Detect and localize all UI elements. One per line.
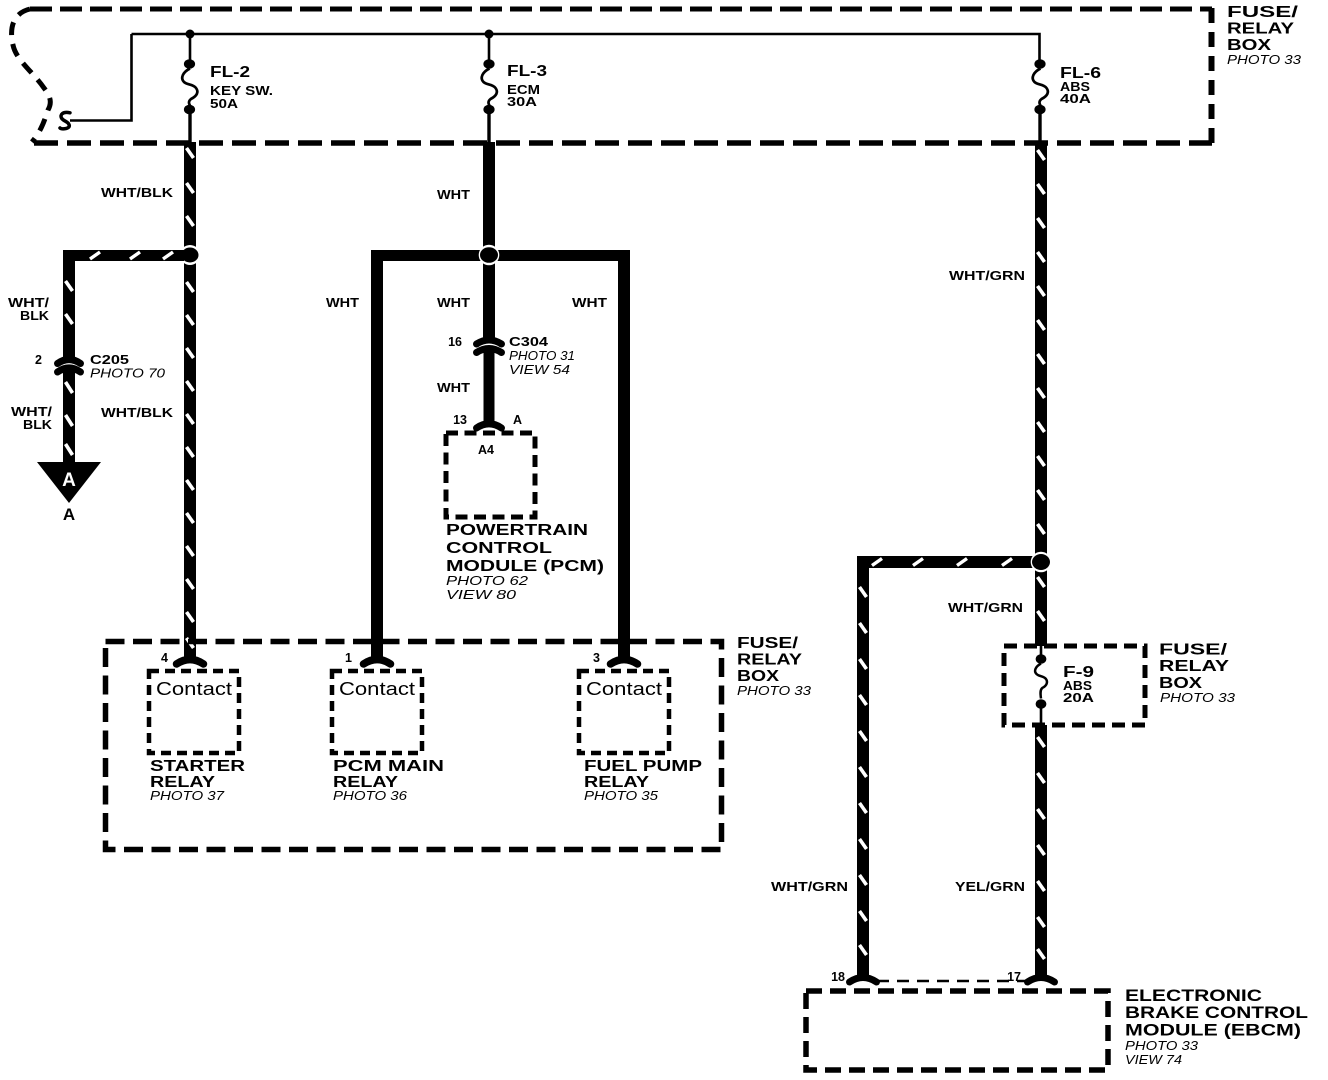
wire from S to bus xyxy=(70,34,132,121)
label ELECTRONIC BRAKE CONTROL MODULE (EBCM) xyxy=(1125,986,1308,1067)
svg-text:RELAY: RELAY xyxy=(1159,658,1230,675)
svg-text:PHOTO 31: PHOTO 31 xyxy=(509,348,575,363)
label FUEL PUMP RELAY xyxy=(584,758,702,803)
svg-text:VIEW 74: VIEW 74 xyxy=(1125,1052,1182,1067)
node junction at FL-2 xyxy=(186,30,195,39)
label fuse/relay box (F-9) xyxy=(1159,642,1236,706)
label POWERTRAIN CONTROL MODULE (PCM) xyxy=(446,522,604,602)
connector C304 xyxy=(477,340,502,353)
svg-text:YEL/GRN: YEL/GRN xyxy=(955,879,1025,894)
svg-text:30A: 30A xyxy=(507,94,538,109)
svg-text:13: 13 xyxy=(453,413,467,427)
svg-text:POWERTRAIN: POWERTRAIN xyxy=(446,522,588,539)
pin arrow into PCM xyxy=(477,424,502,428)
wavy left edge of fuse/relay box xyxy=(12,9,51,142)
svg-text:FUSE/: FUSE/ xyxy=(1159,642,1228,659)
svg-text:BLK: BLK xyxy=(20,308,50,323)
svg-text:PHOTO 70: PHOTO 70 xyxy=(90,366,166,381)
pin arrow into starter relay xyxy=(177,660,204,665)
svg-text:A: A xyxy=(513,413,522,427)
svg-text:WHT/GRN: WHT/GRN xyxy=(949,268,1025,283)
svg-text:40A: 40A xyxy=(1060,91,1092,106)
fusible link FL-6 xyxy=(1033,59,1048,142)
label fuse/relay box (top right) xyxy=(1227,4,1302,67)
svg-text:VIEW 54: VIEW 54 xyxy=(509,362,570,377)
fusible link FL-2 xyxy=(182,34,197,142)
svg-text:FUEL PUMP: FUEL PUMP xyxy=(584,758,702,775)
svg-text:PCM MAIN: PCM MAIN xyxy=(333,758,444,775)
svg-text:PHOTO 33: PHOTO 33 xyxy=(1125,1038,1199,1053)
svg-text:PHOTO 35: PHOTO 35 xyxy=(584,788,659,803)
fuse/relay box (F-9) dashed outline xyxy=(1004,646,1145,725)
svg-text:16: 16 xyxy=(448,335,462,349)
fuse/relay box (bottom left) dashed outline xyxy=(106,642,722,850)
wire right border xyxy=(1209,8,1215,145)
node junction at FL-3 xyxy=(485,30,494,39)
svg-text:4: 4 xyxy=(161,651,168,665)
module PCM terminal A4 dashed box xyxy=(446,433,535,517)
svg-text:50A: 50A xyxy=(210,96,239,111)
svg-text:FL-2: FL-2 xyxy=(210,64,250,81)
svg-text:18: 18 xyxy=(831,970,845,984)
wire WHT/BLK from FL-2 down to starter relay xyxy=(184,142,196,657)
pin arrow into fuel pump relay xyxy=(611,660,638,665)
svg-text:Contact: Contact xyxy=(586,679,662,699)
svg-text:2: 2 xyxy=(35,353,42,367)
svg-text:RELAY: RELAY xyxy=(737,652,803,669)
svg-text:WHT: WHT xyxy=(572,295,607,310)
wire WHT/GRN branch to EBCM pin 18 xyxy=(857,556,1035,976)
node junction WHT/GRN at F-9 feed xyxy=(1031,552,1052,573)
fuse/relay box (top) dashed outline xyxy=(12,8,1212,145)
wire top border xyxy=(30,7,1212,12)
connector C205 xyxy=(58,360,81,373)
wire WHT/GRN from FL-6 down to F-9 xyxy=(1035,142,1047,646)
pin arrow into pcm main relay xyxy=(364,660,391,665)
pin arrow into EBCM pin 17 xyxy=(1028,978,1055,983)
svg-text:PHOTO 36: PHOTO 36 xyxy=(333,788,408,803)
svg-text:1: 1 xyxy=(345,651,352,665)
wire thin bus line across fuse box xyxy=(132,34,1040,61)
svg-text:A4: A4 xyxy=(478,443,494,457)
relay contact fuel pump: dashed box xyxy=(579,671,669,753)
wire WHT from FL-3 down xyxy=(483,142,495,254)
label STARTER RELAY xyxy=(150,758,245,803)
svg-text:VIEW 80: VIEW 80 xyxy=(446,587,517,602)
svg-text:3: 3 xyxy=(593,651,600,665)
svg-text:FUSE/: FUSE/ xyxy=(1227,4,1299,21)
wire dashed link between pins 18 and 17 xyxy=(877,980,1028,983)
svg-text:WHT/GRN: WHT/GRN xyxy=(771,879,848,894)
svg-text:WHT: WHT xyxy=(437,187,470,202)
node junction at starter wire / C205 branch xyxy=(180,245,200,265)
svg-text:PHOTO 37: PHOTO 37 xyxy=(150,788,225,803)
svg-text:Contact: Contact xyxy=(156,679,232,699)
wire bottom border xyxy=(34,140,1212,146)
svg-text:20A: 20A xyxy=(1063,690,1095,705)
relay contact pcm main: dashed box xyxy=(332,671,422,753)
relay contact starter: dashed box xyxy=(149,671,239,753)
svg-text:WHT: WHT xyxy=(326,295,359,310)
label fuse/relay box (bottom left) xyxy=(737,635,812,698)
svg-text:CONTROL: CONTROL xyxy=(446,540,552,557)
svg-text:Contact: Contact xyxy=(339,679,415,699)
wire WHT/BLK branch to C205 xyxy=(63,250,184,463)
node S (battery feed splice symbol) xyxy=(60,112,70,128)
label PCM MAIN RELAY xyxy=(333,758,444,803)
svg-text:PHOTO 33: PHOTO 33 xyxy=(1227,52,1302,67)
svg-text:A: A xyxy=(62,470,76,491)
svg-text:PHOTO 33: PHOTO 33 xyxy=(737,683,812,698)
svg-text:WHT/BLK: WHT/BLK xyxy=(101,405,174,420)
svg-text:WHT: WHT xyxy=(437,295,470,310)
svg-text:MODULE (EBCM): MODULE (EBCM) xyxy=(1125,1021,1301,1040)
node A off-page arrow xyxy=(37,462,101,503)
svg-text:RELAY: RELAY xyxy=(1227,21,1295,38)
svg-text:A: A xyxy=(63,505,75,524)
svg-text:FUSE/: FUSE/ xyxy=(737,635,799,652)
fusible link FL-3 xyxy=(482,34,497,142)
svg-text:WHT/GRN: WHT/GRN xyxy=(948,600,1023,615)
svg-text:PHOTO 62: PHOTO 62 xyxy=(446,573,529,588)
svg-text:BRAKE CONTROL: BRAKE CONTROL xyxy=(1125,1003,1308,1022)
wire YEL/GRN from F-9 down to EBCM pin 17 xyxy=(1035,725,1047,976)
pin arrow into EBCM pin 18 xyxy=(850,978,877,983)
module EBCM dashed box xyxy=(806,991,1108,1070)
svg-text:BLK: BLK xyxy=(23,417,53,432)
svg-text:WHT/BLK: WHT/BLK xyxy=(101,185,174,200)
node junction at FL-3 wire / bar xyxy=(479,245,500,266)
svg-text:WHT: WHT xyxy=(437,380,470,395)
wire WHT distribution bar xyxy=(371,250,630,657)
svg-text:C304: C304 xyxy=(509,334,549,349)
svg-text:FL-3: FL-3 xyxy=(507,63,547,80)
svg-text:PHOTO 33: PHOTO 33 xyxy=(1160,690,1236,705)
fuse F-9 xyxy=(1035,646,1047,725)
svg-text:STARTER: STARTER xyxy=(150,758,245,775)
wire WHT C304 to PCM xyxy=(484,352,495,423)
